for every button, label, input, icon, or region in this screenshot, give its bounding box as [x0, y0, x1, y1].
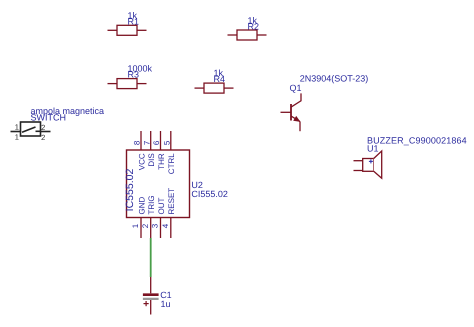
op-amp? no: IC U2 555 timer body [127, 150, 190, 218]
pin 1 GND (bottom) [140, 218, 142, 239]
svg-text:1: 1 [131, 223, 140, 228]
svg-text:R3: R3 [128, 70, 140, 80]
svg-text:R1: R1 [128, 17, 140, 27]
pin 6 THR (top) [160, 131, 162, 150]
svg-text:RESET: RESET [167, 188, 176, 215]
svg-text:1: 1 [15, 133, 19, 142]
svg-text:SWITCH: SWITCH [31, 112, 67, 122]
svg-text:2N3904(SOT-23): 2N3904(SOT-23) [300, 74, 369, 84]
svg-text:THR: THR [157, 153, 166, 170]
svg-text:4: 4 [161, 223, 170, 228]
pin 2 TRIG (bottom) [150, 218, 152, 239]
svg-text:CTRL: CTRL [167, 153, 176, 174]
pin 3 OUT (bottom) [160, 218, 162, 239]
svg-text:7: 7 [142, 140, 151, 145]
svg-text:GND: GND [137, 197, 146, 215]
svg-text:1u: 1u [161, 299, 171, 309]
svg-text:OUT: OUT [157, 198, 166, 215]
svg-text:2: 2 [41, 123, 45, 132]
pin 4 RESET (bottom) [170, 218, 172, 239]
svg-text:CI555.02: CI555.02 [191, 189, 228, 199]
resistor R1 [108, 25, 147, 35]
svg-text:Q1: Q1 [290, 83, 302, 93]
transistor Q1 (NPN 2N3904) [281, 93, 302, 131]
capacitor C1 plus sign [144, 301, 149, 306]
svg-text:TRIG: TRIG [147, 195, 156, 214]
switch SWITCH (reed / ampola magnetica) [11, 122, 51, 136]
buzzer plus sign [369, 159, 373, 163]
svg-text:8: 8 [133, 140, 142, 145]
pin 5 CTRL (top) [170, 131, 172, 150]
wire (green) pin2 to C1 [150, 238, 152, 277]
svg-text:U1: U1 [367, 144, 379, 154]
svg-text:R4: R4 [214, 74, 226, 84]
svg-text:3: 3 [151, 223, 160, 228]
svg-text:IC555.02: IC555.02 [124, 169, 136, 212]
svg-text:2: 2 [141, 223, 150, 228]
svg-text:2: 2 [41, 133, 45, 142]
pin 7 DIS (top) [150, 131, 152, 150]
resistor R2 [228, 30, 267, 40]
svg-text:BUZZER_C9900021864: BUZZER_C9900021864 [367, 135, 467, 145]
transistor Q1 emitter arrow [293, 116, 300, 122]
svg-text:VCC: VCC [137, 153, 146, 170]
resistor R4 [195, 83, 234, 93]
buzzer U1 (speaker symbol) [354, 151, 382, 178]
svg-text:6: 6 [152, 140, 161, 145]
capacitor C1 [143, 277, 159, 315]
resistor R3 [108, 79, 147, 89]
svg-text:5: 5 [162, 140, 171, 145]
svg-text:R2: R2 [248, 22, 260, 32]
svg-text:DIS: DIS [147, 153, 156, 166]
pin 8 VCC (top) [140, 131, 142, 150]
svg-text:1: 1 [15, 123, 19, 132]
